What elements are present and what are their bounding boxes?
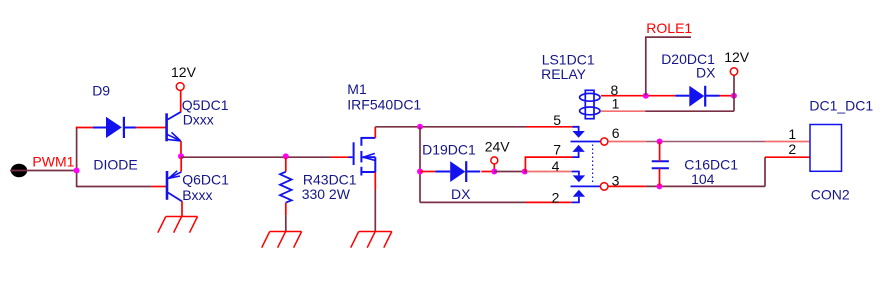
wire coil pin8 to D20: [601, 95, 675, 97]
wire pin6 to CON2 pin1: [608, 141, 646, 143]
junction 12V node: [731, 93, 737, 99]
terminal 12V left: [176, 83, 184, 91]
terminal contact 3: [600, 183, 608, 191]
wire Q5 collector: [180, 90, 182, 112]
svg-text:7: 7: [553, 142, 561, 158]
wire ROLE1: [646, 37, 691, 96]
wire PWM1 horizontal: [27, 170, 77, 172]
terminal 24V: [491, 157, 498, 164]
mosfet M1: [349, 137, 376, 176]
svg-text:CON2: CON2: [811, 186, 850, 202]
svg-text:1: 1: [788, 126, 796, 142]
wire R43 bottom: [285, 203, 287, 216]
terminal 12V right: [730, 68, 737, 75]
connector CON2: [810, 125, 842, 172]
wire cap bottom lead: [659, 168, 661, 186]
junction drain node: [417, 124, 423, 130]
terminal contact 6: [601, 138, 608, 145]
wire M1 drain up: [374, 127, 376, 138]
resistor R43DC1: [280, 172, 292, 203]
wire D19 anode: [420, 171, 435, 173]
wire D19 cathode to 24V node: [481, 171, 494, 173]
svg-text:DX: DX: [696, 65, 716, 81]
wire Q6 emitter: [180, 157, 182, 171]
junction riser node: [522, 169, 528, 175]
wire D9 cathode to Q5 base: [136, 127, 166, 129]
svg-text:DC1_DC1: DC1_DC1: [809, 97, 873, 113]
wire 24V node to riser node: [494, 171, 524, 173]
svg-text:D19DC1: D19DC1: [422, 142, 476, 158]
wire top rail drain to contact pin5: [375, 126, 526, 128]
wire to D9 anode: [76, 127, 93, 129]
svg-text:104: 104: [691, 171, 715, 187]
wire D20 cathode: [720, 95, 734, 97]
svg-text:PWM1: PWM1: [32, 154, 74, 170]
wire cap top lead: [659, 142, 661, 162]
wire coil pin1: [601, 110, 645, 112]
relay contact A: [571, 127, 601, 157]
wire pin2 riser: [764, 157, 766, 186]
wire 12V drop: [733, 75, 735, 111]
transistor Q6: [167, 171, 182, 202]
svg-text:330 2W: 330 2W: [302, 186, 351, 202]
svg-text:12V: 12V: [724, 49, 750, 65]
junction cap bottom: [657, 183, 663, 189]
wire Q6 collector to ground: [181, 201, 183, 216]
svg-text:1: 1: [612, 96, 620, 112]
svg-text:5: 5: [553, 112, 561, 128]
svg-text:ROLE1: ROLE1: [646, 20, 692, 36]
wire PWM1 vertical: [76, 127, 78, 187]
wire 24V drop: [493, 164, 495, 172]
wire to pin4: [525, 171, 527, 173]
capacitor C16DC1: [652, 161, 669, 168]
junction D19 node: [417, 169, 423, 175]
svg-text:DIODE: DIODE: [93, 157, 137, 173]
junction R43 node: [283, 153, 289, 159]
diode D9: [93, 117, 136, 138]
svg-text:Dxxx: Dxxx: [183, 112, 214, 128]
svg-text:D9: D9: [92, 82, 110, 98]
wire pin2 to CON2: [765, 156, 810, 158]
ground Q6: [158, 217, 198, 233]
junction emitter node: [178, 153, 184, 159]
junction ROLE1 node: [643, 93, 649, 99]
wire emitter rail to gate: [181, 156, 331, 158]
svg-text:M1: M1: [347, 81, 367, 97]
ground M1: [351, 232, 392, 248]
wire M1 source down: [374, 172, 376, 190]
svg-text:Q5DC1: Q5DC1: [182, 97, 229, 113]
svg-text:IRF540DC1: IRF540DC1: [347, 97, 421, 113]
wire Q5 emitter: [180, 141, 182, 157]
wire pin3 rail: [608, 185, 645, 187]
relay coil LS1DC1: [580, 90, 600, 118]
junction PWM1 node: [74, 168, 80, 174]
junction cap top: [657, 139, 663, 145]
svg-text:2: 2: [788, 141, 796, 157]
svg-text:4: 4: [552, 158, 560, 174]
wire bottom rail to pin2: [420, 201, 526, 203]
svg-text:RELAY: RELAY: [541, 66, 587, 82]
wire to Q6 base: [76, 186, 152, 188]
svg-text:Q6DC1: Q6DC1: [182, 171, 229, 187]
ground R43: [262, 232, 302, 248]
relay contact B: [571, 172, 601, 203]
svg-text:24V: 24V: [485, 139, 511, 155]
dashed link contacts: [592, 145, 594, 184]
terminal PWM1 port: [10, 164, 27, 177]
svg-text:Bxxx: Bxxx: [182, 187, 212, 203]
svg-text:2: 2: [552, 189, 560, 205]
svg-text:6: 6: [612, 125, 620, 141]
diode D20DC1: [675, 86, 719, 107]
svg-text:DX: DX: [451, 186, 471, 202]
diode D19DC1: [435, 161, 480, 182]
wire riser to pin7: [525, 157, 572, 171]
svg-text:12V: 12V: [171, 64, 197, 80]
wire R43 top: [285, 157, 287, 172]
transistor Q5: [167, 112, 181, 142]
junction 24V node: [491, 169, 497, 175]
wire Q6 base red segment: [152, 186, 166, 188]
wire vertical drain to D19 and bottom rail: [419, 127, 421, 203]
svg-text:R43DC1: R43DC1: [303, 171, 357, 187]
